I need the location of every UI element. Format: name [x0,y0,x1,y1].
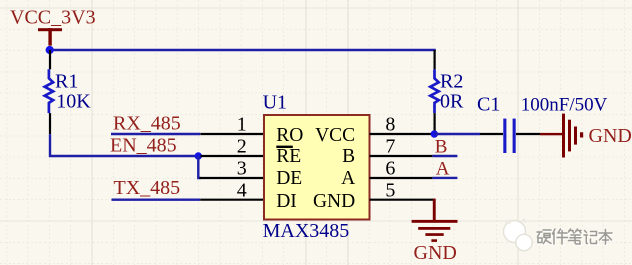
svg-text:10K: 10K [56,90,91,112]
IC U1 pin 6 wire [370,177,433,179]
svg-text:GND: GND [589,125,632,147]
wire VCC rail horizontal [50,49,436,51]
IC U1 MAX3485 body [264,115,370,220]
svg-text:RE: RE [276,146,301,167]
svg-text:100nF/50V: 100nF/50V [521,94,608,115]
IC U1 pin 7 wire [370,155,433,157]
svg-text:2: 2 [237,136,247,158]
svg-text:C1: C1 [477,93,500,115]
wire EN_485 branch to DE [198,156,200,178]
resistor R1 body [45,69,53,113]
power symbol VCC_3V3 bar [38,28,62,45]
svg-text:R2: R2 [440,70,463,92]
ground symbol right (bar style) [540,114,583,158]
svg-text:GND: GND [313,191,355,212]
svg-text:A: A [436,158,450,179]
svg-text:B: B [342,146,355,167]
wire net A stub [433,177,458,179]
svg-text:U1: U1 [263,91,287,113]
IC U1 pin 5 wire [370,199,436,201]
wire VCC rail corner to R2 [434,50,436,69]
ground symbol bottom (earth style) [412,199,458,242]
IC U1 pin 4 wire [200,199,264,201]
wire R1 to EN_485 [50,134,198,156]
svg-text:RX_485: RX_485 [113,113,181,135]
svg-text:VCC: VCC [315,125,355,146]
wire net B stub [433,155,458,157]
svg-text:1: 1 [237,114,247,136]
IC U1 pin 8 wire [370,133,435,135]
wire TX_485 [112,198,201,200]
junction node VCC/R1 [46,46,54,54]
svg-text:5: 5 [385,180,395,202]
IC U1 pin 3 wire [200,177,265,179]
watermark logo circles [504,218,533,251]
svg-text:6: 6 [385,158,395,180]
wire pin8 to C1 [434,133,480,135]
junction node pin8/R2 [431,130,438,137]
svg-text:VCC_3V3: VCC_3V3 [10,7,96,29]
capacitor C1 plates [503,119,515,153]
svg-text:MAX3485: MAX3485 [263,220,350,242]
svg-text:R1: R1 [55,70,78,92]
svg-text:TX_485: TX_485 [114,177,181,199]
svg-text:RO: RO [276,125,303,146]
resistor R1 pin 2 (bottom) [49,113,51,134]
resistor R2 pin (bottom) [434,113,436,134]
svg-text:3: 3 [237,158,247,180]
resistor R2 body [430,69,438,113]
svg-text:B: B [435,136,448,157]
svg-text:A: A [341,168,355,189]
svg-text:0R: 0R [440,90,464,112]
svg-text:8: 8 [385,114,395,136]
capacitor C1 pin right [516,133,540,135]
svg-text:DI: DI [276,191,297,212]
IC U1 pin 2 wire [201,155,265,157]
resistor R1 pin 1 (top) [49,50,51,69]
op IC U1 pin 1 wire [201,133,265,135]
svg-text:DE: DE [276,168,302,189]
overline for RE [276,146,293,148]
wire RX_485 [111,133,200,135]
capacitor C1 pin left [480,133,503,135]
svg-text:7: 7 [385,136,395,158]
svg-text:EN_485: EN_485 [110,134,177,156]
svg-text:4: 4 [237,180,247,202]
junction node EN_485 split [195,152,202,159]
svg-text:GND: GND [414,242,457,264]
